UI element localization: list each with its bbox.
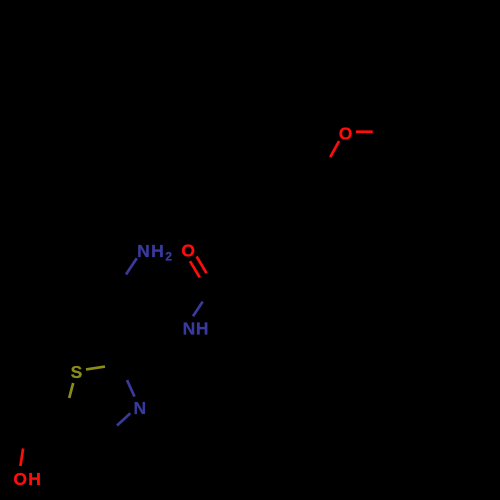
bond NH2-CH2 (blue half) [126,258,137,274]
carbonyl double bond C=O (red half), line 2 [190,261,200,277]
svg-text:NH: NH [137,241,165,261]
carbonyl double bond C=O (red half), line 1 [197,256,207,273]
bond S-C2 (olive half) [86,367,105,370]
svg-text:NH: NH [183,318,210,338]
bond O-aryl down-left (red half) [330,141,339,157]
svg-text:O: O [181,240,195,260]
bond N3-C4 (blue half) [117,413,130,425]
bond N3=C2 (blue half) [127,380,135,397]
svg-text:S: S [71,362,83,382]
svg-text:O: O [339,123,353,143]
bond NH-C(=O) (blue half) [193,302,203,317]
bond S-C5 (olive half) [69,383,73,398]
svg-text:2: 2 [165,250,172,264]
bond CH2-OH (red half) [20,449,23,467]
svg-text:N: N [134,398,147,418]
svg-text:OH: OH [13,469,42,489]
bond O-aryl right (red half) [356,130,373,133]
